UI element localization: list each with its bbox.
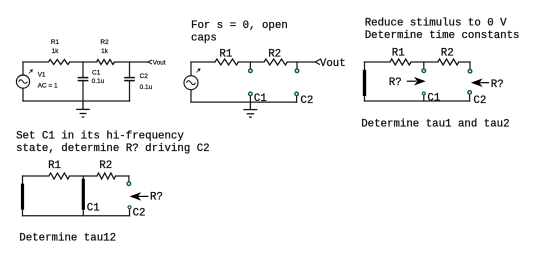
svg-text:C1: C1 [92,70,101,77]
svg-text:C1: C1 [427,92,440,104]
resistor R2 [97,60,115,65]
capacitor C2 plates [124,78,135,81]
svg-text:R?: R? [150,192,163,204]
svg-text:R2: R2 [441,48,454,60]
arrow left-pointing (circuit 4) [131,193,148,199]
resistor R1 (circuit 3) [390,59,411,65]
shorted source bar (c4) [21,184,24,210]
wire C2 lower stem [129,81,131,101]
source polarity arrow (circuit 2) [197,68,201,72]
resistor R1 (circuit 2) [215,59,238,65]
node C2 bottom pin (circuit 3) [468,91,472,95]
wire left vertical above source (c2) [190,62,192,76]
wire R2 to corner (c4) [116,175,129,177]
svg-text:Reduce stimulus to 0 V: Reduce stimulus to 0 V [365,18,507,30]
svg-text:0.1u: 0.1u [140,84,153,91]
svg-text:1k: 1k [52,48,60,55]
source sine (circuit 2) [186,81,195,85]
wire stub C2 bottom pin (c4) [129,209,131,216]
source V1 circle [16,75,29,88]
svg-text:C1: C1 [87,203,100,215]
wire bottom (c2) [191,101,297,103]
svg-text:Vout: Vout [320,58,346,70]
svg-text:Vout: Vout [153,59,166,66]
svg-text:R?: R? [491,79,504,91]
wire between R1 and R2 (c2) [238,61,264,63]
svg-text:C2: C2 [473,95,486,107]
wire between R1 and C1 bar (c4) [70,175,98,177]
wire stub C1 bottom pin (c2) [249,96,251,102]
wire left vertical below source (c2) [190,90,192,102]
wire stub C1 pin (c3) [423,96,425,102]
svg-text:caps: caps [191,32,217,44]
wire top left segment [23,61,48,63]
node open pin top (circuit 4) [127,182,131,186]
wire C2 upper stem [129,62,131,77]
svg-text:R1: R1 [51,39,60,46]
resistor R2 (circuit 2) [264,59,287,65]
svg-text:Set C1 in its hi-frequency: Set C1 in its hi-frequency [16,131,184,143]
node C2 bottom pin (circuit 4) [128,206,131,209]
wire stub C2 pin (c3) [469,95,471,102]
ground (circuit 2) [243,102,257,117]
wire mid vertical C1 (c4) [82,176,84,216]
svg-text:Determine tau1 and tau2: Determine tau1 and tau2 [361,118,509,130]
svg-text:R1: R1 [48,160,61,172]
svg-text:C2: C2 [133,207,146,219]
wire left vertical below source [22,88,24,101]
wire bottom (c4) [23,215,130,217]
shorted source bar (c3) [363,70,366,96]
wire top left segment (c4) [23,175,49,177]
svg-text:AC = 1: AC = 1 [38,83,58,90]
svg-text:C1: C1 [254,93,267,105]
svg-text:state, determine R? driving C2: state, determine R? driving C2 [16,143,210,155]
svg-text:C2: C2 [140,73,149,80]
resistor R2 (circuit 3) [438,59,459,65]
wire stub C2 bottom pin (c2) [296,96,298,102]
wire top left segment (c2) [191,61,215,63]
svg-text:R?: R? [389,77,402,89]
svg-text:Determine time constants: Determine time constants [365,30,520,42]
node C2 bottom pin (circuit 2) [295,92,299,96]
arrow left-pointing (circuit 3) [473,80,489,86]
svg-text:1k: 1k [101,48,109,55]
node Vout pin (circuit 2) [315,59,320,64]
wire bottom (c3) [365,100,470,102]
svg-text:0.1u: 0.1u [92,78,105,85]
ground (circuit 1) [76,101,90,117]
svg-text:C2: C2 [300,95,313,107]
wire stub node2 (c2) [296,62,298,69]
wire R2 to Vout pin [115,61,148,63]
wire corner down to pin (c3) [469,62,471,69]
source circle (circuit 2) [184,76,198,90]
resistor R1 [48,60,69,65]
wire stub node1 (c3) [423,62,425,69]
wire C1 upper stem [82,62,84,77]
svg-text:R2: R2 [100,39,109,46]
svg-text:Determine tau12: Determine tau12 [19,232,116,244]
svg-text:For s = 0, open: For s = 0, open [191,20,288,32]
wire top left segment (c3) [365,61,391,63]
svg-text:R2: R2 [99,160,112,172]
wire left vertical (c4) [22,176,24,216]
wire stub node1 (c2) [249,62,251,69]
wire R2 to Vout (c2) [287,61,315,63]
wire corner down to pin (c4) [128,176,130,182]
wire bottom [23,100,130,102]
node open pin 2 (circuit 2) [295,69,299,73]
wire C1 lower stem [82,81,84,101]
node open pin 1 (circuit 3) [422,69,426,73]
svg-text:V1: V1 [38,72,46,79]
wire left vertical above source [22,62,24,75]
wire between R1 and R2 (c3) [411,61,438,63]
svg-text:R1: R1 [392,48,405,60]
node open pin 2 (circuit 3) [468,69,472,73]
node open pin 1 (circuit 2) [249,69,253,73]
source V1 polarity arrow [29,69,33,73]
arrow right-pointing (circuit 3) [407,78,424,84]
source V1 sine [19,80,28,84]
node C1 bottom pin (circuit 2) [249,92,253,96]
node C1 bottom pin (circuit 3) [422,92,425,95]
node Vout pin (circuit 1) [148,60,152,64]
resistor R1 (circuit 4) [49,173,70,179]
resistor R2 (circuit 4) [97,173,116,179]
capacitor C1 plates [78,78,89,81]
shorted C1 bar (c4) [82,179,85,210]
svg-text:R1: R1 [219,48,232,60]
wire left vertical (c3) [364,62,366,101]
wire R2 to corner (c3) [459,61,470,63]
wire between R1 and R2 [70,61,97,63]
svg-text:R2: R2 [268,48,281,60]
